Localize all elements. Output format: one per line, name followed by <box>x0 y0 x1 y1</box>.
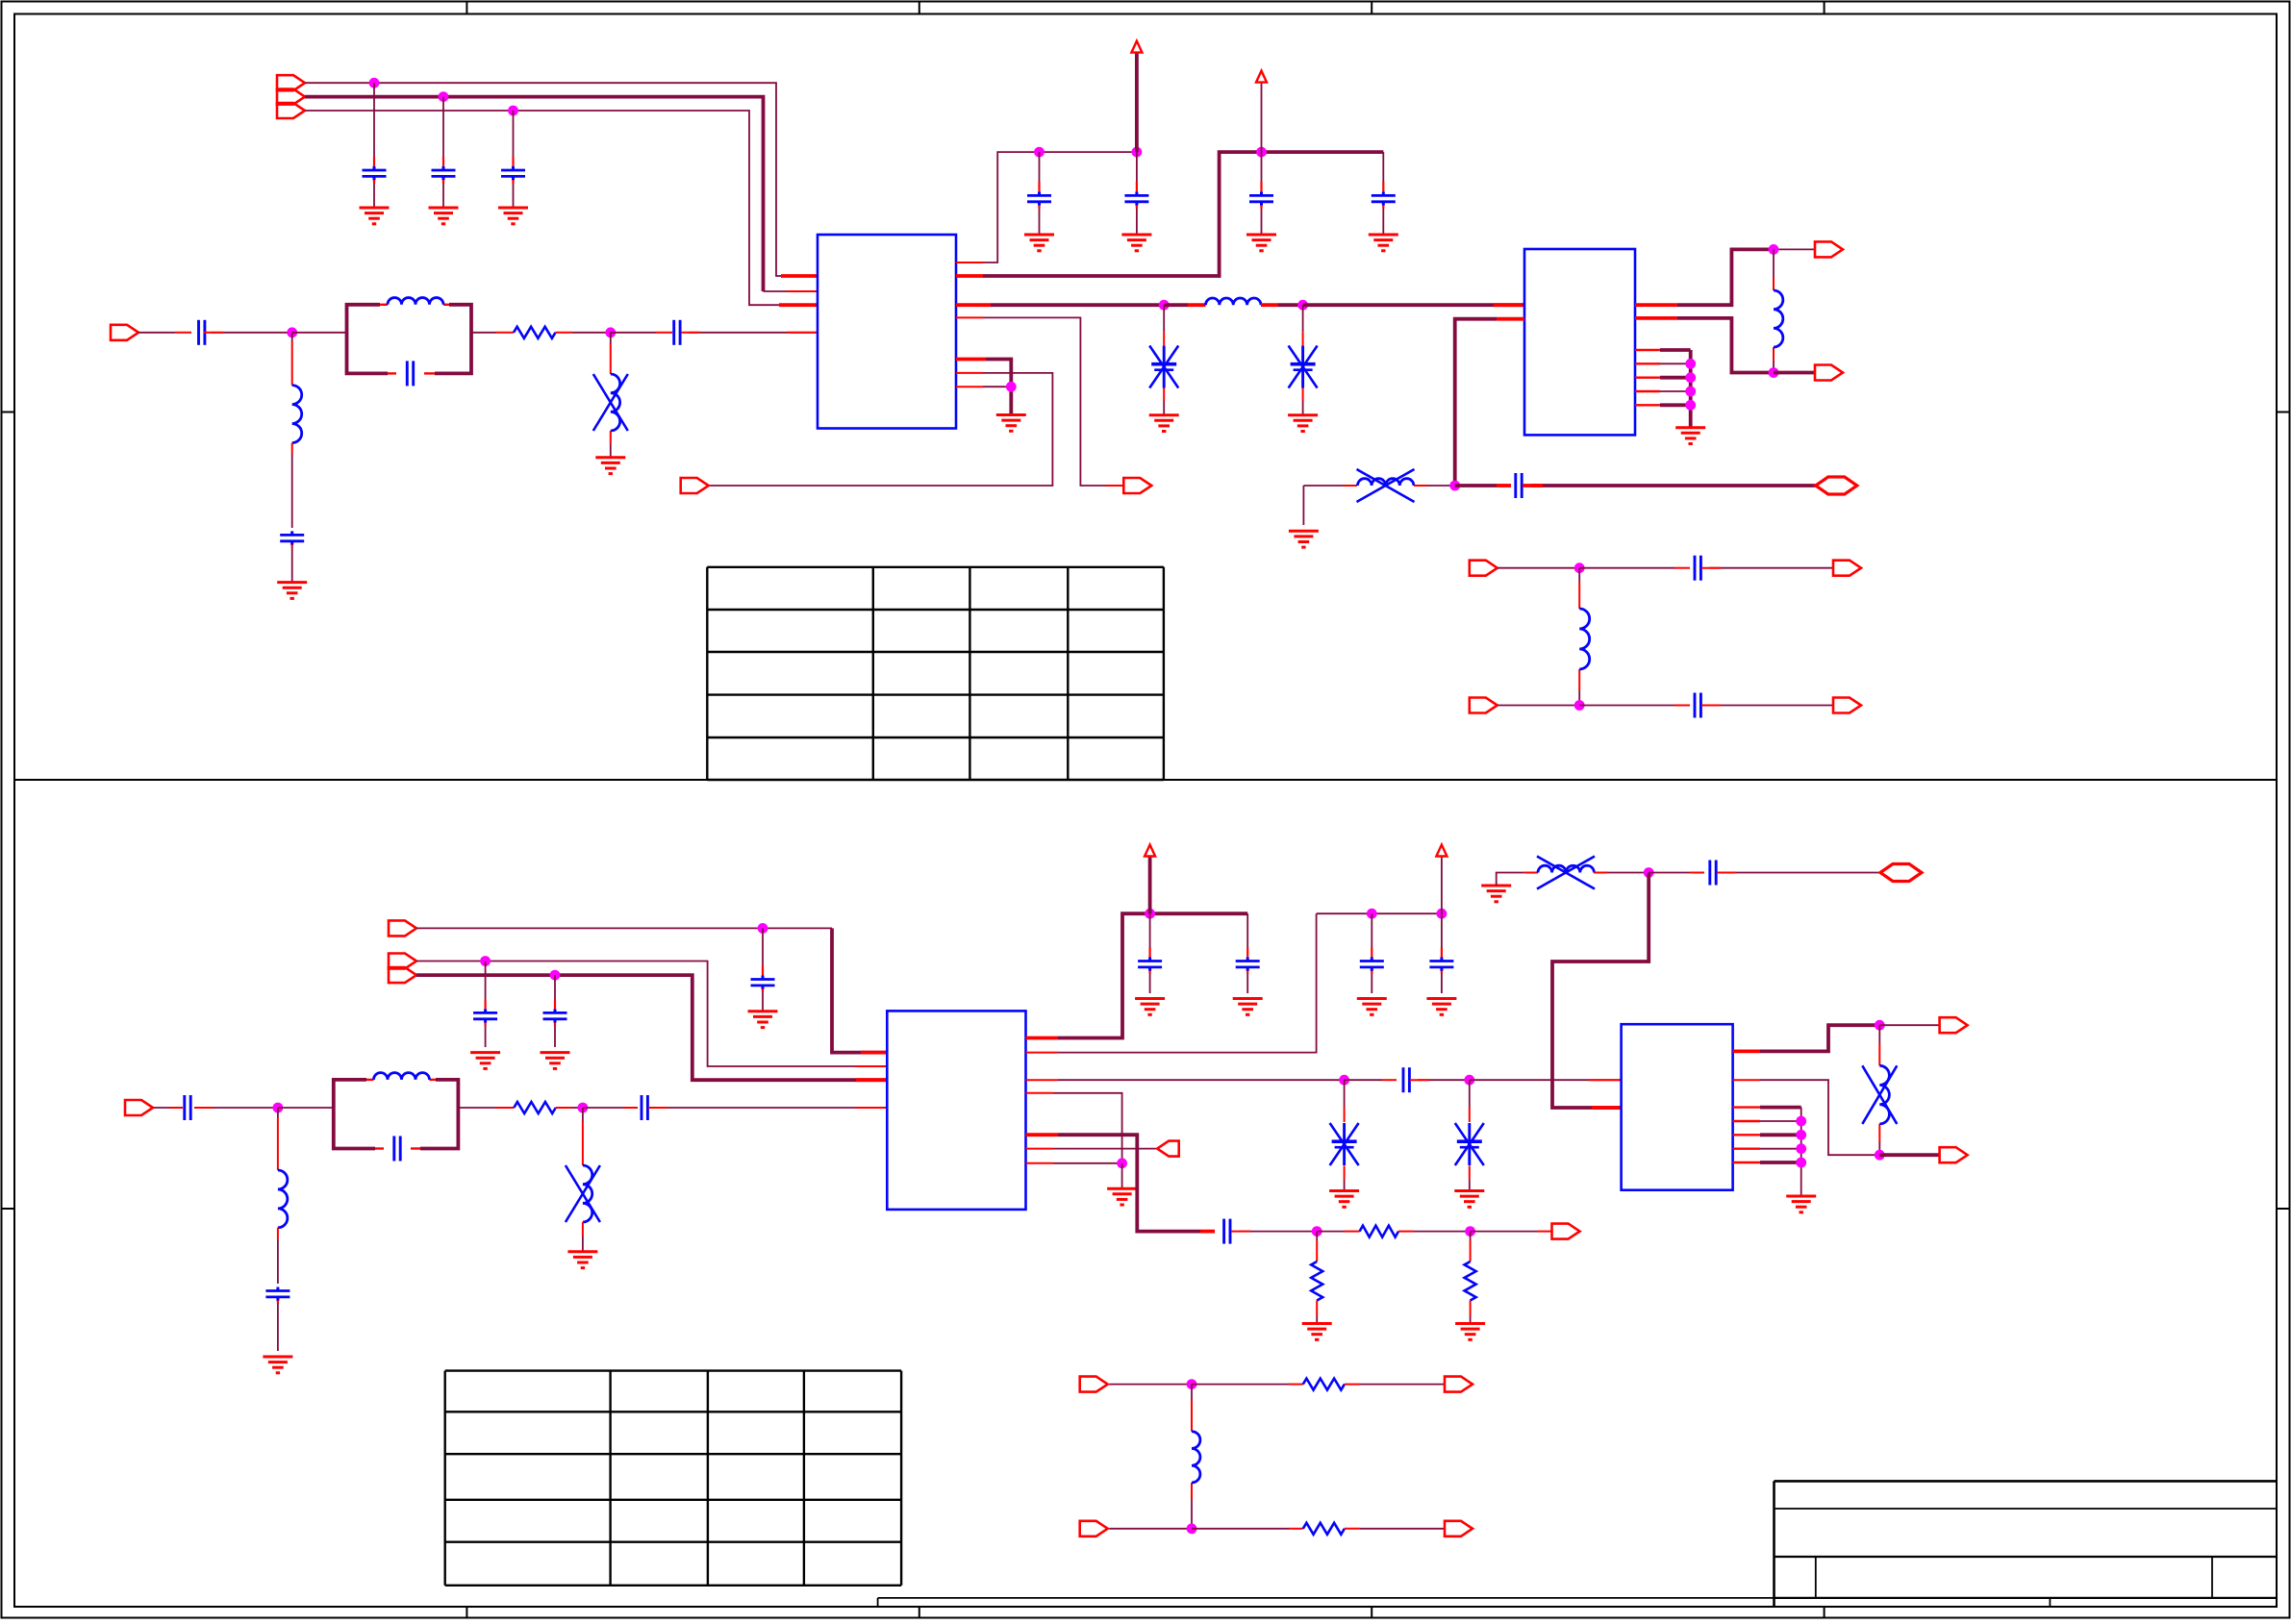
wire node Q to R25 <box>1192 1528 1303 1530</box>
wire R24 to P26 <box>1345 1384 1445 1386</box>
wire C14 to P11 <box>1701 705 1833 707</box>
wire C1 to ground <box>373 197 375 208</box>
inductor L21 (tank top) <box>374 1073 430 1080</box>
resistor R1 <box>514 327 556 338</box>
wire C7 to U1 <box>681 332 818 334</box>
node rail2 junction <box>1256 147 1267 158</box>
node I junction <box>578 1103 589 1113</box>
node U4 gnd junction 1180 <box>1796 1130 1806 1140</box>
wire C23 to node H <box>194 1107 278 1109</box>
port J3 pin A <box>389 954 416 969</box>
ground G22 <box>541 1053 570 1069</box>
wire U3 p3 to node J <box>1026 1079 1345 1081</box>
port P20 RF input <box>125 1100 153 1115</box>
wire to port P6 <box>1774 248 1815 250</box>
capacitor C14 series <box>1695 693 1700 718</box>
port P5 <box>681 478 709 493</box>
node U2 gnd junction 378 <box>1685 359 1696 369</box>
port J1 pin C <box>277 103 305 118</box>
capacitor C6 (tank bottom) <box>407 361 413 386</box>
capacitor C27 <box>1138 913 1162 993</box>
inductor L4 <box>1774 290 1783 347</box>
resistor R22 leads <box>1316 1232 1318 1324</box>
capacitor C23 series <box>185 1095 190 1120</box>
wire node I to C26 <box>583 1107 638 1109</box>
capacitor C28 <box>1236 913 1260 993</box>
pin stub U1 p1 <box>781 274 818 278</box>
capacitor C4 series <box>199 320 205 345</box>
ground G27 <box>1357 999 1387 1015</box>
wire C8 gnd <box>1039 228 1041 235</box>
port P28 <box>1445 1521 1473 1537</box>
node G junction <box>1574 700 1585 711</box>
port P27 <box>1080 1521 1108 1537</box>
wire node J to C31 <box>1345 1079 1397 1081</box>
node railB junction a <box>1367 909 1377 919</box>
node E junction <box>1449 481 1460 491</box>
capacitor C5 shunt <box>280 531 304 577</box>
port P7 <box>1815 365 1843 381</box>
wire U2 p1 to P6 <box>1635 249 1774 305</box>
sheet divider line <box>14 779 2277 781</box>
wire to port P23 <box>1879 1024 1939 1026</box>
title block <box>1775 1481 2278 1607</box>
port P6 <box>1815 241 1843 257</box>
wire net BCTRL1 <box>416 927 832 929</box>
node P6 junction <box>1769 244 1779 255</box>
ground G9 <box>996 415 1026 432</box>
wire C33 to HP2 <box>1717 872 1880 874</box>
ground G4 <box>1121 235 1151 251</box>
wire net CTRL1 <box>305 83 818 276</box>
wire to G31 <box>1121 1163 1123 1188</box>
port J3 pin B <box>389 967 416 983</box>
node junction C2 <box>439 91 449 102</box>
wire P8 to node F <box>1498 567 1579 569</box>
node railB junction b <box>1437 909 1448 919</box>
wire node B to C7 <box>611 332 672 334</box>
wire U3 p2 to railB <box>1026 913 1317 1052</box>
node rail1 junction a <box>1034 147 1045 158</box>
variable inductor LV21 <box>1862 1065 1897 1124</box>
capacitor C1 <box>363 83 387 197</box>
ground G11 <box>1289 531 1319 547</box>
node BC2 junction <box>480 956 491 966</box>
inductor LV1 lead <box>610 333 612 374</box>
ground G25 <box>1135 999 1165 1015</box>
varactor CV21 <box>1455 1123 1484 1165</box>
op-amp U3 (RF IC) <box>887 1011 1025 1210</box>
resistor R22 <box>1311 1262 1322 1301</box>
wire T1 gnd branch <box>1302 486 1304 525</box>
capacitor C13 series <box>1695 556 1700 581</box>
port J2 control <box>389 920 416 936</box>
power VCC3 wire <box>1148 857 1152 914</box>
wire node M to P21 <box>1471 1231 1552 1233</box>
wire node G to C14 <box>1579 705 1690 707</box>
op-amp U2 (RF IC) <box>1524 249 1635 435</box>
port P25 <box>1080 1377 1108 1392</box>
resistor R21 <box>1360 1226 1398 1237</box>
port P10 <box>1470 698 1498 713</box>
inductor LV20 lead2 <box>582 1222 584 1252</box>
wire U3 p7 <box>1026 1162 1122 1164</box>
wire net CTRL3 <box>305 111 818 305</box>
ground G28 <box>1426 999 1456 1015</box>
varactor CV2 <box>1289 346 1318 388</box>
inductor L20 <box>278 1170 288 1228</box>
wire U3 p6 to P22 <box>1026 1148 1158 1150</box>
ground G30 <box>1454 1191 1484 1208</box>
tank circuit box T-NET2 <box>334 1080 459 1149</box>
wire node O to R24 <box>1192 1384 1303 1386</box>
wire U4 p1 to P23 <box>1733 1025 1880 1051</box>
inductor L2 (tank top) <box>388 298 443 305</box>
node BC1 junction <box>758 923 768 934</box>
inductor L4 leads <box>1773 249 1775 372</box>
varactor CV1 <box>1149 346 1178 388</box>
varactor CV20 leads <box>1344 1080 1346 1190</box>
port P22 <box>1157 1141 1179 1157</box>
wire U1 p3 to node C <box>956 303 1164 307</box>
capacitor C31 series <box>1403 1067 1409 1092</box>
node U4 gnd junction 1166 <box>1796 1116 1806 1127</box>
varactor CV2 leads <box>1302 305 1304 415</box>
capacitor C21 <box>473 962 497 1048</box>
ground G23 <box>263 1357 292 1373</box>
node U2 gnd junction 393 <box>1685 372 1696 383</box>
capacitor C12 series <box>1516 473 1522 498</box>
wire P20 to C23 <box>153 1107 183 1109</box>
node U2 gnd junction 421 <box>1685 400 1696 411</box>
wire P27 to node Q <box>1109 1528 1192 1530</box>
wire node N to C33 <box>1649 872 1704 874</box>
port P21 <box>1552 1224 1580 1239</box>
node junction C1 <box>369 78 380 88</box>
wire R25 to P28 <box>1345 1528 1445 1530</box>
wire railB <box>1317 912 1442 914</box>
wire C26 to U3 <box>648 1107 887 1109</box>
capacitor C2 <box>432 97 456 197</box>
capacitor C30 <box>1429 913 1453 993</box>
node D junction <box>1297 300 1308 311</box>
node P23 junction <box>1875 1020 1885 1031</box>
ground C2 <box>429 208 459 224</box>
node BC3 junction <box>550 970 561 981</box>
wire U4 ground pins <box>1733 1108 1801 1196</box>
port P23 <box>1940 1017 1968 1033</box>
inductor L20 lead2 <box>277 1228 279 1284</box>
wire C31 to node K <box>1410 1079 1470 1081</box>
wire U2 p-lo <box>1455 319 1524 486</box>
title block bottom strip <box>878 1598 1775 1607</box>
wire C10 gnd <box>1261 228 1263 235</box>
port P1 RF input <box>111 325 138 340</box>
wire R20 to node I <box>556 1107 583 1109</box>
wire tank2 to R20 <box>458 1107 514 1109</box>
wire node A down <box>291 333 293 341</box>
pin stub U1 p3 <box>779 303 818 307</box>
resistor R23 <box>1465 1262 1476 1301</box>
capacitor C9 <box>1124 152 1148 228</box>
resistor R20 <box>514 1102 556 1113</box>
inductor L1 lead red <box>291 341 293 386</box>
transformer T1 (variable) <box>1357 469 1415 502</box>
wire T1 left <box>1303 485 1357 487</box>
wire U1 p2 to rail2 <box>956 152 1383 276</box>
wire C2 to ground <box>442 197 444 208</box>
capacitor C8 <box>1027 152 1051 228</box>
resistor R23 leads <box>1470 1232 1472 1324</box>
inductor L5 <box>1579 609 1590 669</box>
node B junction <box>605 327 616 337</box>
wire node F to C13 <box>1579 567 1690 569</box>
wire P10 to node G <box>1498 705 1579 707</box>
inductor LV21 leads <box>1878 1025 1880 1155</box>
wire U3 p5 chain <box>1026 1135 1216 1231</box>
wire node E to C12 <box>1455 484 1511 487</box>
wire U3 p4 <box>1026 1093 1122 1163</box>
capacitor C10 <box>1249 152 1273 228</box>
wire U1 p4 to P4 <box>956 317 1123 486</box>
capacitor C3 <box>501 111 525 197</box>
inductor LV1 lead2 <box>610 431 612 458</box>
wire C3 to ground <box>513 197 515 208</box>
node J junction <box>1339 1075 1349 1086</box>
inductor L5 leads <box>1578 568 1580 706</box>
wire U2 ground pins <box>1635 350 1691 428</box>
node H junction <box>273 1103 284 1113</box>
wire tank to R1 <box>471 332 514 334</box>
ground G8 <box>1288 415 1318 432</box>
tank circuit box T-NET1 <box>347 305 472 374</box>
node N junction <box>1644 867 1654 878</box>
transformer T2 (variable) <box>1537 857 1595 889</box>
inductor L22 <box>1192 1432 1200 1483</box>
port P24 <box>1940 1147 1968 1162</box>
wire T1 to node E <box>1414 485 1455 487</box>
op-amp U4 (RF IC) <box>1622 1024 1733 1190</box>
wire R1 to node B <box>556 332 611 334</box>
wire net CTRL2 <box>305 97 764 291</box>
wire P1 to C4 <box>138 332 191 334</box>
capacitor C33 series <box>1710 861 1716 886</box>
port HP1 (bidirectional) <box>1816 477 1857 494</box>
wire U1 p6 to P5 <box>709 373 1052 486</box>
wire node H to tank2 <box>278 1107 334 1109</box>
ground G34 <box>1481 886 1511 902</box>
port J1 pin B <box>277 89 305 105</box>
ground G26 <box>1233 999 1263 1015</box>
power VCC3 arrow <box>1145 845 1155 857</box>
wire U1 p5 <box>956 360 1011 415</box>
wire U1 p1 to rail1 <box>956 152 1137 262</box>
ground G33 <box>1455 1324 1485 1340</box>
node F junction <box>1574 562 1585 573</box>
ground G31 <box>1107 1188 1137 1205</box>
wire node D to U2 <box>1303 303 1524 307</box>
power VCC2 arrow <box>1256 71 1267 83</box>
capacitor C7 series <box>674 320 680 345</box>
port P4 <box>1123 478 1151 493</box>
wire U1 p7 <box>956 386 1011 387</box>
port HP2 (bidirectional) <box>1880 864 1922 882</box>
wire C9 gnd <box>1136 228 1138 235</box>
wire C12 to HP1 <box>1523 484 1816 487</box>
node P7 junction <box>1769 367 1779 378</box>
node U4 gnd junction 1195 <box>1796 1143 1806 1154</box>
wire U2 p2 to P7 <box>1635 318 1774 373</box>
capacitor C24 shunt <box>265 1287 290 1352</box>
node U3 gnd junction <box>1117 1158 1127 1168</box>
node U4 gnd junction 1209 <box>1796 1158 1806 1168</box>
power VCC1 arrow <box>1131 41 1142 53</box>
power VCC4 wire <box>1441 857 1443 914</box>
node A junction <box>287 327 297 337</box>
wire node K to U4 <box>1470 1079 1622 1081</box>
port P11 <box>1833 698 1861 713</box>
node P24 junction <box>1875 1150 1885 1161</box>
inductor L1 lead2 <box>291 443 293 528</box>
wire node L to R21 <box>1317 1231 1359 1233</box>
wire net BCTRL3 <box>416 975 887 1080</box>
node rail1 junction b <box>1132 147 1143 158</box>
wire to port P24 <box>1879 1153 1939 1157</box>
ground G20 <box>748 1012 778 1028</box>
ground G3 <box>1024 235 1054 251</box>
wire R21 to node M <box>1398 1231 1471 1233</box>
ground G2 <box>595 458 625 474</box>
power VCC2 wire <box>1261 83 1263 153</box>
ground C3 <box>498 208 528 224</box>
inductor LV20 lead <box>582 1108 584 1165</box>
ground G24 <box>567 1252 597 1268</box>
wire net BCTRL2 <box>416 962 887 1067</box>
wire C11 gnd <box>1382 228 1384 235</box>
variable inductor LV1 <box>593 374 628 431</box>
node C junction <box>1159 300 1170 311</box>
table (bottom sheet values) <box>445 1371 901 1586</box>
wire node A to tank <box>292 332 347 334</box>
wire node N to U4 <box>1552 873 1649 1109</box>
variable inductor LV20 <box>566 1165 600 1222</box>
resistor R24 <box>1303 1379 1345 1390</box>
node O junction <box>1187 1379 1197 1389</box>
inductor L1 <box>292 386 302 443</box>
node U1 gnd junction <box>1006 382 1017 392</box>
capacitor C11 <box>1372 152 1396 228</box>
wire L3 to node D <box>1261 303 1303 307</box>
wire net CTRL2 tail <box>764 290 818 292</box>
capacitor C25 (tank bottom) <box>394 1137 400 1162</box>
node L junction <box>1312 1226 1322 1237</box>
wire BCTRL1 vert <box>832 928 887 1052</box>
wire to port P7 <box>1774 371 1815 375</box>
port P8 <box>1470 561 1498 576</box>
wire C13 to P9 <box>1701 567 1833 569</box>
wire T2 gnd <box>1497 873 1538 887</box>
port P26 <box>1445 1377 1473 1392</box>
capacitor C32 series <box>1224 1219 1230 1244</box>
ground G32 <box>1302 1324 1332 1340</box>
power VCC1 wire <box>1135 53 1139 153</box>
wire C32 to node L <box>1231 1231 1317 1233</box>
wire P25 to node O <box>1109 1384 1192 1386</box>
ground G6 <box>1369 235 1398 251</box>
varactor CV21 leads <box>1469 1080 1471 1190</box>
resistor R25 <box>1303 1523 1345 1535</box>
node Q junction <box>1187 1523 1197 1534</box>
table (top sheet values) <box>707 567 1164 780</box>
op-amp U1 (RF IC) <box>818 235 956 429</box>
node junction C3 <box>508 106 518 116</box>
node U2 gnd junction 407 <box>1685 387 1696 397</box>
wire C5 to ground <box>291 577 293 583</box>
capacitor C26 series <box>642 1095 647 1120</box>
ground G7 <box>1149 415 1179 432</box>
ground G35 <box>1786 1196 1816 1212</box>
ground G10 <box>1675 428 1705 444</box>
wire node C to L3 <box>1164 303 1205 307</box>
wire U4 p2 to P24 <box>1733 1080 1880 1155</box>
node K junction <box>1464 1075 1474 1086</box>
ground G29 <box>1329 1191 1359 1208</box>
ground C1 <box>360 208 390 224</box>
wire C4 to node A <box>204 332 292 334</box>
wire C20 gnd <box>762 1006 764 1012</box>
node M junction <box>1465 1226 1475 1237</box>
ground G5 <box>1246 235 1276 251</box>
inductor L3 <box>1206 298 1262 305</box>
capacitor C29 <box>1360 913 1384 993</box>
capacitor C20 <box>751 928 775 1006</box>
port J1 pin A <box>277 75 305 90</box>
wire T2 to node N <box>1594 872 1649 874</box>
port P9 <box>1833 561 1861 576</box>
power VCC4 arrow <box>1436 845 1447 857</box>
node railA junction <box>1145 909 1155 919</box>
ground G1 <box>277 583 307 599</box>
capacitor C22 <box>543 975 567 1047</box>
ground G21 <box>470 1053 500 1069</box>
inductor L22 leads <box>1191 1385 1193 1529</box>
inductor L20 lead <box>277 1108 279 1170</box>
varactor CV20 <box>1330 1123 1359 1165</box>
varactor CV1 leads <box>1163 305 1165 415</box>
wire U3 p1 to railA <box>1026 913 1248 1037</box>
